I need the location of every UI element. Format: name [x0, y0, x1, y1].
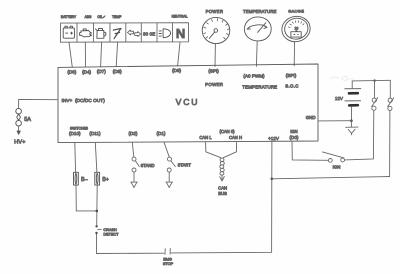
wire GND	[318, 120, 351, 122]
erased pencil smudge	[330, 76, 354, 80]
junction	[96, 210, 99, 213]
svg-text:VCU: VCU	[176, 97, 200, 107]
VCU box	[58, 64, 318, 143]
svg-text:(D8): (D8)	[113, 69, 122, 74]
wire temperature gauge	[255, 41, 258, 66]
svg-text:TEMPERATURE: TEMPERATURE	[242, 85, 277, 90]
battery 12V	[345, 89, 361, 106]
svg-text:(CAN 0): (CAN 0)	[219, 129, 235, 134]
svg-text:INV+ (DC/DC OUT): INV+ (DC/DC OUT)	[62, 98, 106, 104]
wire D4	[84, 42, 86, 67]
gauge POWER	[202, 17, 230, 43]
indicator cluster box	[60, 23, 188, 43]
power rail	[352, 79, 390, 82]
svg-text:GAUGE: GAUGE	[288, 8, 304, 13]
stand switch	[132, 157, 139, 172]
wire +12V	[271, 142, 273, 179]
svg-text:(D4): (D4)	[82, 69, 91, 74]
wire	[96, 185, 99, 225]
wire D2	[132, 142, 134, 157]
svg-text:STOP: STOP	[163, 262, 174, 266]
svg-text:POWER: POWER	[205, 82, 223, 87]
wire	[171, 179, 272, 253]
ground	[350, 121, 352, 127]
svg-text:CRASH: CRASH	[103, 228, 117, 232]
svg-text:5A: 5A	[24, 117, 31, 123]
svg-text:N: N	[176, 26, 185, 41]
svg-text:(D7): (D7)	[97, 69, 106, 74]
fuse B+	[95, 172, 100, 185]
high-voltage warning icon	[113, 29, 121, 39]
headlight icon	[159, 29, 170, 38]
gauge SOC	[279, 14, 312, 45]
svg-text:+12V: +12V	[268, 136, 280, 141]
wire D7	[101, 42, 102, 67]
turn signal arrows icon	[128, 30, 141, 37]
wire D10	[74, 142, 77, 172]
svg-text:12V: 12V	[335, 96, 344, 101]
ignition switch IGN	[322, 152, 344, 162]
CAN bus twisted pair	[206, 142, 237, 181]
wire INV+	[19, 99, 58, 108]
kill switch 2	[388, 80, 394, 176]
svg-text:S.O.C: S.O.C	[285, 84, 298, 89]
start switch	[167, 157, 175, 172]
svg-text:(D6): (D6)	[67, 70, 76, 75]
node HV+	[18, 126, 20, 131]
kill switch 1	[372, 98, 378, 111]
battery warning icon	[63, 26, 74, 38]
svg-text:B+: B+	[102, 177, 109, 183]
svg-text:GND: GND	[306, 115, 316, 120]
svg-text:(SPI): (SPI)	[208, 68, 219, 73]
wire D1	[164, 142, 169, 157]
svg-text:START: START	[178, 162, 192, 167]
ground	[168, 172, 170, 181]
svg-text:BUS: BUS	[218, 191, 227, 196]
svg-text:OIL✓: OIL✓	[97, 15, 105, 19]
svg-text:SWITCHES: SWITCHES	[70, 127, 89, 131]
oil warning icon	[96, 29, 106, 39]
svg-text:CAN: CAN	[218, 185, 227, 190]
wire D8	[116, 42, 117, 66]
fuse B-	[74, 172, 79, 185]
junction	[350, 119, 353, 122]
svg-text:NEUTRAL: NEUTRAL	[172, 15, 188, 19]
svg-text:(D9): (D9)	[172, 68, 181, 73]
engine warning icon	[80, 29, 92, 37]
wire soc gauge	[293, 42, 295, 66]
fuse 5A	[16, 108, 22, 126]
wire power gauge	[214, 44, 216, 67]
svg-text:STAND: STAND	[141, 163, 155, 168]
gauge TEMPERATURE	[244, 17, 271, 41]
junction	[271, 178, 274, 181]
svg-text:(D10): (D10)	[69, 131, 81, 136]
wire D11	[95, 142, 97, 172]
svg-text:EMG: EMG	[163, 257, 172, 261]
svg-text:(D1): (D1)	[157, 131, 166, 136]
svg-text:BATTERY: BATTERY	[61, 15, 77, 19]
wire	[97, 234, 164, 253]
svg-text:(D0): (D0)	[290, 135, 299, 140]
wire D0	[292, 142, 328, 160]
svg-text:(A0 PWM): (A0 PWM)	[243, 74, 265, 79]
wire	[272, 177, 390, 179]
svg-text:(SPI): (SPI)	[286, 73, 297, 78]
svg-text:POWER: POWER	[206, 9, 224, 14]
svg-text:30 0E: 30 0E	[143, 31, 155, 36]
svg-text:TEMP: TEMP	[112, 15, 122, 19]
junction	[373, 79, 375, 81]
svg-text:ABS: ABS	[85, 15, 93, 19]
svg-text:DETECT: DETECT	[103, 233, 119, 237]
svg-text:B–: B–	[81, 177, 88, 183]
svg-text:CAN L: CAN L	[199, 135, 212, 140]
wire	[373, 81, 375, 99]
svg-text:IGN: IGN	[333, 164, 341, 169]
svg-text:TEMPERATURE: TEMPERATURE	[243, 9, 277, 14]
svg-text:CAN H: CAN H	[229, 135, 242, 140]
svg-text:(D2): (D2)	[129, 131, 138, 136]
ground	[133, 172, 135, 181]
svg-text:10: 10	[295, 27, 299, 31]
svg-text:(D11): (D11)	[89, 131, 101, 136]
wire D9 (neutral)	[178, 42, 180, 65]
crash detect switch	[95, 225, 101, 234]
svg-text:IGN: IGN	[290, 129, 297, 134]
wire D6	[69, 42, 72, 67]
emergency stop switch	[165, 249, 170, 255]
wire	[345, 110, 374, 159]
wire	[350, 107, 352, 121]
wire	[76, 185, 97, 211]
svg-text:HV+: HV+	[14, 139, 26, 145]
